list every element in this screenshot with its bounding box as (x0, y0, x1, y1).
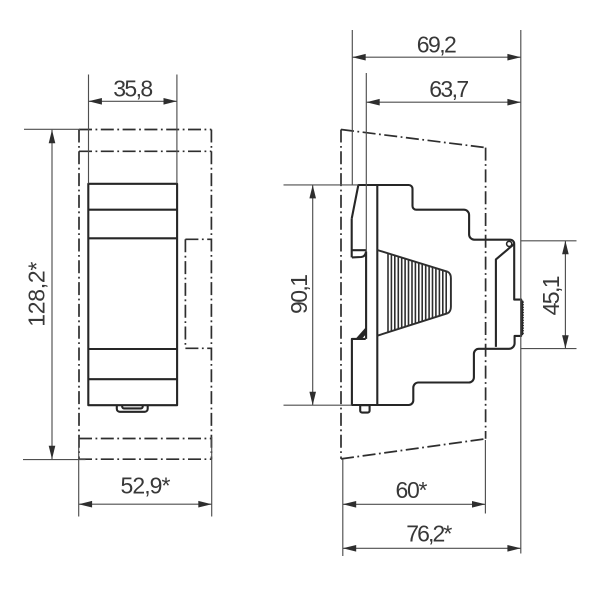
arrow 76,2 left (343, 545, 356, 552)
divider line 4 (88, 378, 177, 380)
serrated grip edge (522, 301, 524, 336)
left view phantom box top line (79, 129, 211, 131)
ext 35,8 right (176, 75, 178, 184)
left view phantom left vertical (78, 130, 80, 460)
ext 45,1 top (520, 240, 576, 242)
back upper vertical (351, 219, 353, 258)
ext 52,9 right (211, 437, 213, 517)
spring clip inner diagonal (360, 333, 366, 339)
dim line 45,1 (564, 241, 566, 349)
svg-text:90,1: 90,1 (286, 274, 312, 314)
arrow 35,8 right (164, 98, 177, 105)
dim line 90,1 (312, 185, 314, 406)
ext right front face (520, 30, 522, 554)
divider line 2 (88, 237, 177, 239)
ext 35,8 left (88, 75, 90, 184)
dim line 63,7 (366, 101, 521, 103)
wedge right cap (448, 272, 451, 313)
svg-text:52,9*: 52,9* (121, 473, 171, 499)
ext 60 right (484, 440, 486, 514)
spring clip diagonal (357, 329, 366, 339)
svg-text:69,2: 69,2 (417, 31, 457, 57)
left view phantom second top line (79, 150, 211, 152)
spring clip mid diagonal (359, 330, 367, 339)
arrow 52,9 right (198, 501, 211, 508)
svg-text:128,2*: 128,2* (24, 262, 50, 327)
ext 60 left (342, 460, 344, 557)
divider line 3 (88, 348, 177, 350)
svg-text:45,1: 45,1 (538, 275, 564, 315)
arrow 69,2 right (507, 54, 520, 61)
ext 69,2 left (351, 30, 353, 185)
arrowheads (49, 54, 569, 552)
module front outline (88, 184, 177, 405)
divider line 1 (88, 209, 177, 211)
serration teeth (522, 302, 524, 335)
left view phantom bottom inner line (79, 438, 211, 440)
side bottom tab (360, 405, 369, 412)
arrow 35,8 left (89, 98, 102, 105)
front bottom tab (117, 405, 148, 412)
side outline top and right (352, 185, 522, 405)
rail hook beak (352, 252, 366, 258)
left view cutout vertical (184, 239, 186, 348)
arrow 90,1 up (309, 185, 316, 198)
ext 90,1 top (284, 184, 359, 186)
wedge bottom edge (377, 313, 448, 336)
left view phantom bottom line (79, 458, 211, 460)
arrow 52,9 left (79, 501, 92, 508)
lever pivot circle (507, 241, 512, 246)
left view phantom right vertical (210, 130, 212, 460)
side view phantom top slant (341, 130, 486, 148)
ext 45,1 bottom (520, 348, 576, 350)
dim line 69,2 (352, 56, 521, 58)
dim line 52,9 (79, 503, 212, 505)
main body wall (376, 185, 378, 405)
side view phantom bottom slant (341, 439, 486, 459)
arrow 69,2 left (352, 54, 365, 61)
wedge ribs (387, 253, 389, 332)
dim line 35,8 (89, 100, 177, 102)
arrow 60 left (343, 501, 356, 508)
arrow 76,2 right (507, 545, 520, 552)
arrow 60 right (472, 501, 485, 508)
rail hook top (352, 249, 366, 251)
ext 52,9 left (78, 437, 80, 517)
arrow 128,2 down (49, 446, 56, 459)
rail plane vertical (365, 252, 367, 339)
ext 90,1 bottom (284, 404, 353, 406)
ribbed wedge (377, 250, 451, 336)
ext 63,7 left (365, 73, 367, 252)
dimension texts (24, 31, 565, 546)
svg-text:60*: 60* (396, 477, 428, 503)
arrow 63,7 left (366, 99, 379, 106)
svg-text:35,8: 35,8 (113, 75, 153, 101)
dim line 76,2 (343, 547, 521, 549)
wedge top edge (377, 250, 448, 272)
front bottom tab inner (122, 405, 143, 408)
side view solid profile (352, 185, 524, 413)
dim line 128,2 (51, 130, 53, 459)
side view phantom right vertical (485, 148, 487, 439)
ext 128,2 top (24, 128, 80, 130)
svg-text:76,2*: 76,2* (406, 521, 452, 547)
arrow 128,2 up (49, 130, 56, 143)
phantom (dash-dot) lines (79, 130, 486, 460)
left view cutout bottom (185, 347, 211, 349)
svg-text:63,7: 63,7 (429, 76, 469, 102)
arrow 45,1 down (562, 335, 569, 348)
ext 128,2 bottom (23, 459, 86, 461)
side view phantom left vertical (340, 130, 342, 459)
arrow 63,7 right (507, 99, 520, 106)
arrow 45,1 up (562, 241, 569, 254)
dim line 60 (343, 503, 486, 505)
left view cutout top (185, 238, 211, 240)
arrow 90,1 down (309, 392, 316, 405)
lever diagonal (496, 244, 514, 347)
